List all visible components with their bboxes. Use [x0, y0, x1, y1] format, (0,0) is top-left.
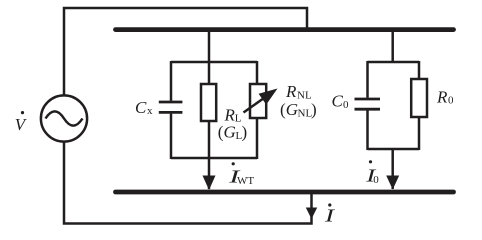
svg-text:G: G — [224, 123, 236, 142]
svg-text:C: C — [332, 92, 344, 111]
svg-text:): ) — [242, 123, 248, 142]
svg-text:R: R — [285, 82, 297, 101]
svg-text:G: G — [286, 100, 298, 119]
svg-text:NL: NL — [297, 89, 312, 101]
svg-text:R: R — [436, 88, 448, 107]
svg-text:R: R — [224, 105, 236, 124]
svg-text:0: 0 — [373, 174, 379, 186]
svg-text:0: 0 — [343, 99, 349, 111]
svg-text:x: x — [147, 105, 153, 117]
svg-text:WT: WT — [237, 175, 254, 187]
svg-text:C: C — [135, 98, 147, 117]
svg-text:): ) — [311, 100, 317, 119]
svg-text:0: 0 — [448, 95, 454, 107]
svg-text:I: I — [324, 206, 336, 226]
